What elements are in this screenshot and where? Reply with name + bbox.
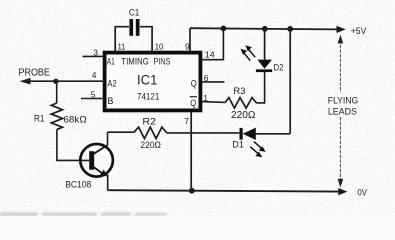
D2 emission arrow 1 [248, 49, 255, 57]
wire D2 up to rail [264, 29, 266, 60]
wire collector up to R2 row [107, 132, 109, 145]
svg-text:+5V: +5V [351, 26, 367, 37]
node dot D2 rail [262, 26, 268, 32]
PROBE arrowhead [20, 78, 31, 85]
D1 emission arrow 2 [250, 147, 259, 155]
svg-text:PINS: PINS [153, 56, 170, 66]
svg-text:74121: 74121 [137, 91, 159, 101]
svg-text:220Ω: 220Ω [231, 110, 256, 121]
resistor R2 [134, 127, 167, 139]
svg-text:Q: Q [191, 78, 197, 88]
node dot pin7 rail [189, 188, 195, 194]
svg-text:0V: 0V [357, 187, 367, 198]
wire pin 7 down to 0V rail [190, 112, 192, 191]
node dot D1 rail [287, 26, 293, 32]
wire pin 14 to rail [202, 28, 223, 59]
svg-text:5: 5 [91, 89, 96, 99]
svg-text:IC1: IC1 [137, 73, 158, 88]
wire R3 to D2 [257, 72, 265, 103]
D2 emission arrow 2 [243, 52, 250, 60]
svg-text:1: 1 [203, 93, 208, 103]
0V arrowhead [338, 188, 347, 195]
svg-text:C1: C1 [129, 8, 139, 19]
svg-text:B: B [107, 96, 113, 106]
svg-text:R1: R1 [34, 114, 45, 124]
wire 0V bottom rail [108, 190, 339, 191]
svg-text:68kΩ: 68kΩ [63, 114, 86, 125]
capacitor C1 [129, 19, 139, 36]
wire pin 9 to rail [189, 28, 191, 51]
wire collector to R2 [108, 131, 134, 133]
diode D2 [256, 69, 272, 72]
IC IC1 74121 box [105, 53, 201, 111]
svg-text:BC108: BC108 [65, 180, 91, 190]
node probe junction [53, 79, 58, 84]
diode D1 [240, 128, 243, 140]
wire +5V top rail [190, 28, 337, 29]
svg-text:LEADS: LEADS [328, 107, 357, 117]
svg-text:R3: R3 [233, 86, 245, 97]
wire R1 to base [57, 129, 89, 160]
node dot pin14 rail [221, 26, 227, 32]
svg-text:A2: A2 [107, 78, 116, 88]
wire PROBE to pin 4 [27, 80, 104, 82]
svg-text:4: 4 [92, 70, 97, 80]
wire probe dot down to R1 [56, 81, 58, 103]
svg-text:A1: A1 [107, 57, 115, 67]
D1 emission arrow 1 [254, 141, 263, 149]
svg-text:11: 11 [118, 42, 126, 52]
resistor R3 [225, 98, 256, 109]
svg-text:10: 10 [155, 42, 164, 52]
svg-text:220Ω: 220Ω [140, 140, 161, 151]
svg-text:7: 7 [184, 116, 189, 126]
svg-text:R2: R2 [142, 116, 156, 127]
svg-text:Q: Q [190, 98, 196, 108]
svg-text:FLYING: FLYING [328, 96, 359, 106]
wire emitter down to 0V rail [107, 175, 109, 191]
wire pin 11 to C1 [115, 27, 129, 51]
wire pin 3 stub [83, 55, 105, 57]
svg-text:6: 6 [204, 73, 209, 83]
flying leads arrow [339, 40, 341, 93]
svg-text:14: 14 [205, 49, 215, 59]
wire D1 to right branch [256, 133, 290, 135]
+5V arrowhead [337, 26, 346, 33]
svg-text:3: 3 [93, 47, 98, 57]
wire pin 5 stub [81, 98, 104, 100]
svg-text:TIMING: TIMING [121, 56, 149, 66]
svg-text:PROBE: PROBE [19, 68, 51, 79]
svg-text:9: 9 [185, 42, 190, 52]
wire C1 to pin 10 [140, 27, 152, 51]
svg-text:D2: D2 [274, 62, 284, 72]
resistor R1 [51, 103, 62, 129]
wire pin 6 stub [202, 81, 225, 83]
wire pin 1 to R3 [202, 101, 225, 104]
wire right branch up to rail [289, 29, 291, 134]
wire R2 to D1 [167, 132, 240, 134]
transistor Q1 BC108 [80, 144, 113, 177]
svg-text:D1: D1 [232, 140, 244, 150]
